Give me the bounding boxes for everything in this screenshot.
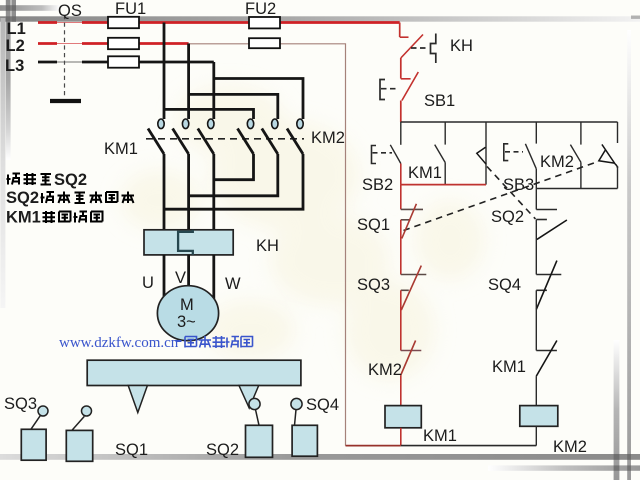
mechanical link dashes SQ1 (404, 162, 599, 231)
svg-text:KM2: KM2 (553, 438, 587, 456)
contactor KM1 main pole 1 (148, 119, 164, 154)
wire L3 branch to KM2 pole3 (214, 79, 303, 120)
worktable bar (87, 360, 301, 385)
pushbutton SB3 NO blade (525, 144, 536, 169)
wire SB3 to rejoin (535, 169, 537, 189)
wire coil KM2 to bottom rail (535, 426, 537, 445)
svg-text:SQ1: SQ1 (357, 216, 390, 234)
svg-text:FU1: FU1 (115, 0, 146, 18)
limit switch SQ2 lever (256, 410, 260, 426)
wire bottom rail red segment (346, 445, 401, 447)
wire bottom rail (401, 445, 537, 447)
wire L2 phase line (38, 42, 189, 45)
pushbutton SB1 actuator dashes (381, 88, 399, 90)
limit switch SQ4 body (292, 425, 317, 456)
fuse FU2 pole 1 (249, 17, 280, 28)
svg-text:QS: QS (58, 2, 82, 20)
fuse FU1 pole 3 (108, 56, 139, 67)
control bus node A (401, 121, 618, 123)
svg-text:KM1: KM1 (423, 427, 457, 445)
wire KM1 pole1 to KH (163, 154, 166, 230)
limit switch SQ3 body (21, 429, 46, 460)
limit switch SQ1 roller (82, 406, 92, 416)
contactor KM1 main pole 2 (173, 119, 189, 154)
caption line 1 hanzi dang tie peng (7, 173, 52, 185)
limit switch SQ2 NC seat (536, 209, 557, 211)
frame bar right C (614, 340, 620, 480)
svg-text:KM1: KM1 (492, 358, 526, 376)
wire SB1 to bus (400, 101, 402, 123)
pushbutton SB2 NO blade (390, 145, 401, 164)
frame bar bottom short (488, 465, 640, 470)
frame bar top long (0, 16, 640, 21)
contact KM2 aux NO branch wire (580, 122, 582, 145)
limit switch SQ1 body (66, 430, 92, 461)
svg-text:SB1: SB1 (424, 92, 455, 110)
svg-text:SQ4: SQ4 (488, 276, 521, 294)
pushbutton SB1 NC blade (402, 72, 418, 101)
contactor KM2 main pole 2 (262, 119, 278, 154)
svg-text:KH: KH (450, 37, 473, 55)
contactor KM2 main pole 1 (238, 119, 254, 154)
wire KH to SB1 (400, 58, 402, 79)
pushbutton SB3 actuator dashes (505, 151, 523, 153)
svg-text:U: U (142, 274, 154, 292)
svg-text:L2: L2 (6, 37, 25, 55)
frame bar bottom long (0, 454, 640, 460)
limit switch SQ1 NO blade (602, 144, 618, 168)
faint background mottle (120, 85, 485, 380)
contact KM2 aux NO blade (570, 145, 581, 163)
coil KM2 (520, 406, 558, 427)
fuse FU2 pole 2 (249, 38, 280, 48)
wire L1 drop to KM1 pole1 (163, 23, 166, 120)
wire coil KM1 to bottom rail (400, 428, 402, 446)
pushbutton SB1 actuator (380, 80, 385, 100)
limit switch SQ4 NC seat (536, 274, 561, 276)
contact KM1 aux NO branch wire (444, 122, 446, 145)
fuse FU1 pole 2 (108, 38, 139, 49)
wire left group rejoin (401, 184, 486, 186)
limit switch SQ1 NC seat (401, 208, 423, 210)
svg-text:SQ2: SQ2 (6, 189, 39, 207)
wire KM1 interlock to coil KM2 (535, 376, 537, 406)
thermal relay KH element dashes (411, 47, 427, 49)
caption line 3 hanzi xian quan de dian (43, 211, 103, 223)
wire U to motor (163, 255, 166, 297)
svg-text:L3: L3 (5, 57, 24, 75)
mechanical link dashes SQ2 (487, 167, 536, 220)
svg-text:SQ3: SQ3 (357, 276, 390, 294)
svg-text:L1: L1 (7, 20, 26, 38)
limit switch SQ1 NO roller triangle (599, 150, 615, 164)
wire SB2 to rejoin (400, 164, 402, 185)
disconnect switch QS handle bar (50, 99, 81, 103)
thermal contact KH NC blade (401, 35, 423, 59)
dog triangle right (239, 386, 259, 409)
caption line 2 hanzi dong he chu tou bi he (41, 192, 135, 204)
wire V to motor (187, 255, 190, 287)
thermal contact KH NC seat (400, 36, 409, 38)
wire SQ1 NO to rejoin (617, 166, 619, 189)
wire SQ4 to KM1 interlock (535, 290, 537, 350)
wire KM2 pole2 cross to V node (189, 154, 278, 196)
svg-text:www.dzkfw.com.cn: www.dzkfw.com.cn (59, 335, 179, 351)
svg-text:SQ2: SQ2 (206, 441, 239, 459)
disconnect switch QS dashed linkage (64, 15, 66, 98)
pushbutton SB1 NC seat (401, 78, 411, 80)
limit switch SQ2 body (246, 425, 273, 457)
motor M 3ph (157, 286, 218, 341)
fuse FU1 pole 1 (108, 17, 139, 28)
limit switch SQ1 lever (72, 416, 84, 430)
frame crossing dark patches bottom-right (614, 454, 620, 460)
wire SQ3 to KM2 interlock (400, 290, 402, 350)
limit switch SQ2 NO blade closed roller triangle (477, 147, 486, 164)
limit switch SQ2 roller (249, 398, 260, 409)
thermal relay KH heater element (178, 230, 193, 255)
frame bar left A (6, 0, 11, 160)
wire KM2 pole1 cross to W node (214, 154, 254, 180)
limit switch SQ3 NC seat (401, 274, 427, 276)
contactor KM1 main contacts dashed linkage (146, 138, 304, 140)
svg-text:KH: KH (256, 237, 279, 255)
pushbutton SB2 branch wire (400, 122, 402, 145)
svg-text:3~: 3~ (177, 313, 196, 331)
limit switch SQ2 NC lower tick (536, 219, 547, 221)
pushbutton SB3 branch wire (535, 122, 537, 144)
limit switch SQ4 NC blade closed (536, 261, 557, 310)
limit switch SQ3 lever (31, 415, 41, 429)
frame bar left edge (0, 18, 5, 308)
pushbutton SB2 actuator dashes (373, 152, 393, 154)
svg-text:KM2: KM2 (311, 129, 345, 147)
wire L2 control return thin (189, 44, 346, 446)
svg-text:V: V (175, 269, 186, 287)
svg-text:SQ3: SQ3 (4, 395, 37, 413)
frame bar top short (0, 5, 60, 11)
wire KM1 pole3 to KH (212, 154, 215, 230)
svg-text:SQ2: SQ2 (54, 171, 87, 189)
frame crossing dark patches top-left (6, 5, 11, 11)
wire L3 drop to KM1 pole3 (212, 62, 215, 119)
limit switch SQ1 NC lower tick (401, 219, 411, 221)
wire W to motor (212, 255, 215, 299)
thermal relay KH heater box (144, 230, 233, 255)
wire L2 branch to KM2 pole2 (189, 94, 278, 119)
svg-text:SQ4: SQ4 (306, 396, 339, 414)
wire KM2 aux to rejoin (580, 162, 582, 188)
coil KM1 (385, 406, 421, 428)
svg-text:SQ2: SQ2 (491, 208, 524, 226)
frame bar left B (11, 0, 16, 22)
top bar right end smudge (631, 16, 640, 19)
frame bar right D (627, 30, 631, 480)
control rail red from L1 (399, 23, 401, 38)
wire rejoin to SQ1 (400, 185, 402, 210)
limit switch SQ2 NO branch wire (485, 122, 487, 185)
contactor KM1 main pole 3 (198, 119, 214, 154)
contact KM1 aux NO blade (435, 145, 446, 163)
svg-text:M: M (180, 296, 194, 314)
wire L3 phase line (38, 61, 214, 64)
pushbutton SB3 actuator (504, 144, 509, 161)
wire SQ2 to SQ4 (535, 220, 537, 275)
limit switch SQ2 NC blade open (537, 220, 567, 239)
wire rejoin to SQ2 (535, 189, 537, 210)
pushbutton SB2 actuator (372, 146, 377, 164)
watermark separator dash (176, 340, 182, 342)
wire L2 drop to KM1 pole2 (187, 44, 190, 120)
limit switch SQ4 roller (291, 398, 302, 409)
limit switch SQ3 roller (38, 406, 48, 416)
limit switch SQ4 lever (295, 410, 297, 426)
svg-text:W: W (225, 275, 241, 293)
limit switch SQ3 NC blade closed (401, 266, 421, 310)
svg-text:KM2: KM2 (368, 361, 402, 379)
dog triangle left (128, 386, 147, 413)
limit switch SQ1 NC blade closed (402, 204, 417, 239)
wire KM1 aux to rejoin (444, 163, 446, 185)
svg-text:SQ1: SQ1 (115, 441, 148, 459)
svg-text:SB3: SB3 (503, 176, 534, 194)
contact KM2 NC interlock blade (401, 341, 416, 376)
wire SQ1 to SQ3 (400, 220, 402, 275)
svg-text:KM1: KM1 (104, 140, 138, 158)
thermal relay KH element bracket (431, 34, 436, 64)
svg-text:KM1: KM1 (408, 164, 442, 182)
svg-text:KM2: KM2 (540, 153, 574, 171)
wire KM2 pole3 cross to U node (164, 154, 303, 209)
wire L1 branch to KM2 pole1 (164, 109, 254, 119)
contact KM1 NC interlock blade (536, 341, 557, 377)
wire right group rejoin (536, 188, 617, 190)
wire L1 phase line (38, 21, 400, 24)
contact KM1 NC interlock seat (536, 350, 557, 352)
contact KM2 NC interlock seat (401, 350, 422, 352)
svg-text:FU2: FU2 (245, 0, 276, 18)
watermark hanzi dian zi kai fa wang (185, 336, 253, 348)
svg-text:KM1: KM1 (6, 209, 41, 227)
limit switch SQ4 NC lower tick (536, 289, 547, 291)
limit switch SQ3 NC lower tick (401, 289, 409, 291)
wire KM2 interlock to coil KM1 (400, 376, 402, 406)
wire KM1 pole2 to KH (187, 154, 190, 230)
bus end drop wire (617, 122, 619, 143)
contactor KM2 main pole 3 (287, 119, 303, 154)
svg-text:SB2: SB2 (362, 176, 393, 194)
